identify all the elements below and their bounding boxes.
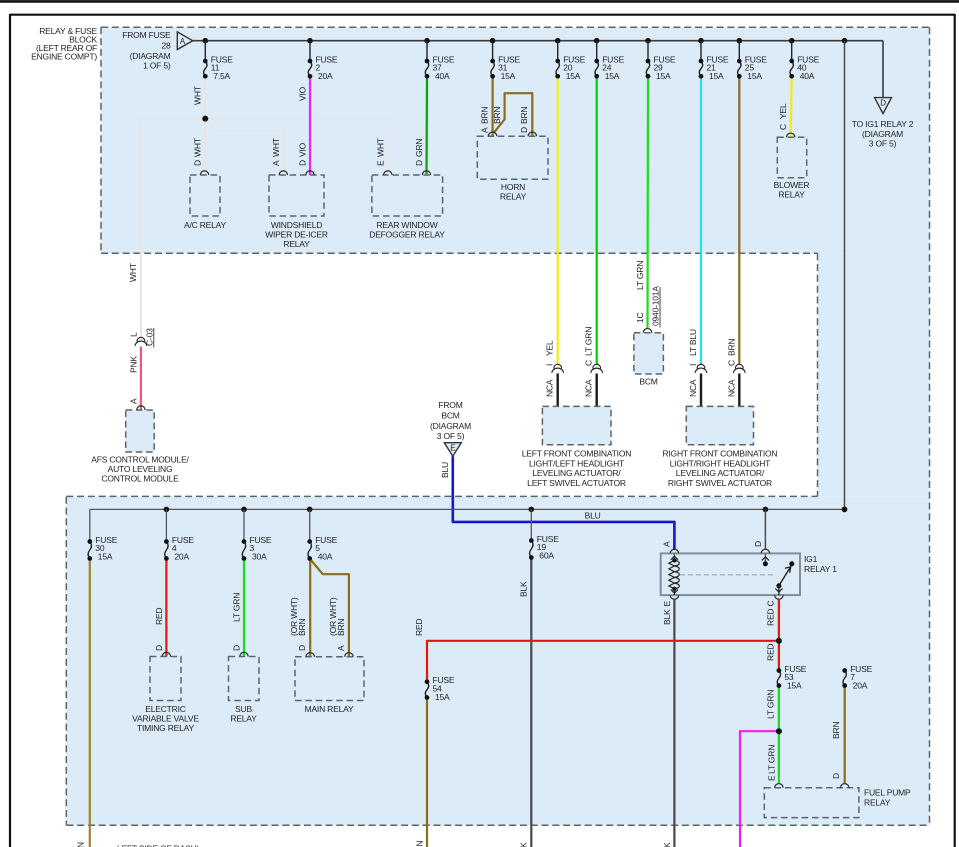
svg-text:LIGHT/RIGHT HEADLIGHT: LIGHT/RIGHT HEADLIGHT (670, 458, 771, 468)
node: bus tap for fuse 31 (490, 38, 496, 44)
svg-text:15A: 15A (98, 552, 113, 562)
wire RED: IG1 pin C down to junction and fuse 53 (778, 599, 780, 670)
svg-text:L: L (128, 332, 138, 337)
fuse 53 (777, 671, 780, 686)
dashed border: bottom box (65, 497, 67, 826)
node: bus tap for fuse 11 (203, 38, 209, 44)
node: bus tap IG1 relay pin D (763, 507, 769, 513)
svg-text:C: C (778, 124, 788, 130)
svg-text:RED: RED (766, 644, 776, 661)
relay IG1 RELAY 1 (solid box) (661, 553, 800, 595)
svg-text:A: A (180, 37, 186, 46)
svg-text:LT GRN: LT GRN (231, 593, 241, 622)
svg-text:3 OF 5): 3 OF 5) (437, 431, 465, 441)
svg-text:VIO: VIO (297, 142, 307, 157)
svg-text:LT BLU: LT BLU (688, 329, 698, 356)
svg-text:ELECTRIC: ELECTRIC (145, 704, 185, 714)
top window edge line (0, 0, 959, 3)
wire YEL: fuse 20 down to connector (557, 76, 559, 364)
fuse 4 20A (165, 542, 168, 559)
svg-text:NCA: NCA (545, 379, 555, 397)
svg-text:A: A (128, 398, 138, 404)
wire WHT: fuse 11 to junction (204, 76, 206, 118)
svg-text:REAR WINDOW: REAR WINDOW (376, 220, 437, 230)
node: bus tap fuse 3 (241, 507, 247, 513)
wire: bus to IG1 relay pin D (764, 509, 766, 550)
svg-text:LEFT SWIVEL ACTUATOR: LEFT SWIVEL ACTUATOR (527, 478, 626, 488)
wire BRN: horn loop pin A to pin D (494, 93, 533, 136)
svg-text:BRN: BRN (492, 107, 502, 124)
svg-text:15A: 15A (787, 681, 802, 691)
svg-text:RELAY 1: RELAY 1 (804, 564, 837, 574)
svg-text:VARIABLE VALVE: VARIABLE VALVE (132, 714, 199, 724)
wire LT GRN: fuse 53 to junction to fuel pump relay pin E (778, 686, 780, 784)
svg-text:WINDSHIELD: WINDSHIELD (271, 220, 322, 230)
svg-text:BLU: BLU (440, 462, 450, 478)
dashed border: right edge full (929, 27, 931, 825)
wire LT GRN: fuse 3 to SUB relay pin D (243, 559, 245, 657)
svg-text:RELAY: RELAY (778, 190, 805, 200)
node: bus tap fuse 4 (164, 507, 170, 513)
svg-text:RIGHT FRONT COMBINATION: RIGHT FRONT COMBINATION (662, 449, 777, 459)
connector: YEL to NCA (554, 364, 562, 368)
node: bus tap fuse 19 (529, 507, 535, 513)
svg-text:MAIN RELAY: MAIN RELAY (305, 704, 354, 714)
svg-text:3 OF 5): 3 OF 5) (869, 139, 897, 149)
node: RED junction (776, 638, 782, 644)
dashed border: middle box right edge (817, 253, 819, 496)
svg-text:RED: RED (766, 609, 776, 626)
svg-text:7.5A: 7.5A (213, 71, 230, 81)
wire BRN: fuse 5 branch to MAIN relay pin A (310, 559, 349, 657)
wire: bus left corner down to fuse 30 (89, 509, 91, 541)
svg-text:LEFT FRONT COMBINATION: LEFT FRONT COMBINATION (522, 449, 631, 459)
svg-text:D: D (297, 645, 307, 651)
dashed border: middle box bottom (66, 495, 817, 497)
node: bus junction with vertical feed (842, 507, 848, 513)
wire RED: fuse 4 to EVVT relay pin D (165, 559, 167, 657)
svg-text:YEL: YEL (778, 103, 788, 119)
wire: bus drop to triangle D (882, 41, 884, 98)
wire BRN: fuse 7 to fuel pump relay pin D (844, 686, 846, 784)
fuse 3 30A (242, 542, 245, 559)
svg-text:(DIAGRAM: (DIAGRAM (430, 421, 471, 431)
svg-text:DEFOGGER RELAY: DEFOGGER RELAY (369, 230, 445, 240)
IG1 relay switch arm (776, 583, 781, 588)
svg-text:RELAY: RELAY (230, 714, 257, 724)
node: LT GRN / VIO junction (776, 728, 782, 734)
fuse 5 40A (308, 542, 311, 559)
svg-text:TAN: TAN (76, 842, 86, 847)
fuse 19 60A (530, 541, 533, 558)
svg-text:BRN: BRN (479, 107, 489, 124)
fuse 24 15A (595, 61, 598, 76)
wire GRN: fuse 37 to defogger pin D (425, 76, 428, 175)
svg-text:BLU: BLU (585, 510, 601, 520)
wire VIO: junction left and down off-page (740, 731, 779, 847)
IG1 relay pin C exit (778, 586, 780, 595)
fuse 37 40A (425, 61, 428, 76)
IG1 relay: mechanical dashed link (680, 574, 776, 576)
svg-text:40A: 40A (435, 71, 450, 81)
connector triangle E (from BCM) (444, 443, 461, 457)
svg-text:20A: 20A (174, 552, 189, 562)
svg-text:20A: 20A (853, 681, 868, 691)
right blue column (818, 253, 930, 496)
svg-text:WHT: WHT (376, 138, 386, 157)
svg-text:0940-101A: 0940-101A (651, 286, 661, 326)
IG1 relay coil (673, 553, 675, 560)
svg-text:RELAY: RELAY (500, 192, 527, 202)
wire NCA lead at x=596.7 (596, 374, 598, 407)
svg-text:LT GRN: LT GRN (584, 327, 594, 356)
wire NCA lead at x=701 (700, 374, 702, 407)
svg-text:D: D (880, 98, 886, 107)
svg-text:VIO: VIO (297, 86, 307, 101)
svg-text:A/C RELAY: A/C RELAY (184, 220, 227, 230)
fuse terminal dots overlay (203, 59, 208, 64)
svg-text:BRN: BRN (414, 841, 424, 847)
wire WHT: junction down to A/C relay pin D (204, 119, 206, 175)
node: bus tap for fuse 40 (789, 38, 795, 44)
svg-text:C: C (726, 360, 736, 366)
wire VIO: fuse 2 to wiper relay pin D (309, 76, 311, 175)
svg-text:15A: 15A (435, 692, 450, 702)
svg-text:15A: 15A (501, 71, 516, 81)
relay box: SUB RELAY (229, 657, 260, 701)
wire: lower bus (90, 508, 845, 510)
svg-text:15A: 15A (709, 71, 724, 81)
relay box: ELECTRIC VARIABLE VALVE TIMING RELAY (150, 657, 181, 701)
svg-text:RELAY: RELAY (283, 239, 310, 249)
svg-text:E: E (450, 444, 455, 453)
wire NCA lead at x=557.7 (557, 374, 559, 407)
svg-text:LT GRN: LT GRN (635, 261, 645, 290)
node: WHT junction (202, 116, 208, 122)
fuse 54 (425, 682, 428, 698)
relay & fuse block region (top) (101, 27, 930, 253)
svg-text:ENGINE COMPT): ENGINE COMPT) (31, 52, 97, 62)
connector triangle D (to IG1 relay 2) (875, 98, 892, 114)
svg-text:D: D (297, 160, 307, 166)
svg-text:SUB: SUB (235, 704, 252, 714)
svg-text:TIMING RELAY: TIMING RELAY (137, 723, 194, 733)
fuse 29 15A (646, 61, 649, 76)
svg-text:I: I (545, 364, 555, 366)
svg-text:BRN: BRN (336, 619, 346, 636)
svg-text:A: A (271, 160, 281, 166)
outer frame (10, 14, 955, 16)
wire BRN: fuse 25 down to connector (738, 76, 740, 364)
svg-text:D: D (753, 541, 763, 547)
svg-text:BRN: BRN (831, 722, 841, 739)
IG1 relay pin D entry (761, 549, 769, 553)
wire LT GRN: fuse 24 down to connector (596, 76, 598, 364)
svg-text:BRN: BRN (519, 107, 529, 124)
svg-text:CONTROL MODULE: CONTROL MODULE (101, 474, 179, 484)
bottom blue region (66, 497, 929, 826)
svg-text:WHT: WHT (193, 86, 203, 105)
svg-text:LT GRN: LT GRN (766, 690, 776, 719)
svg-text:15A: 15A (747, 71, 762, 81)
svg-text:D: D (519, 127, 529, 133)
module box: AFS CONTROL MODULE (126, 410, 155, 452)
svg-text:WHT: WHT (128, 263, 138, 282)
node: bus tap for fuse 20 (555, 38, 561, 44)
svg-text:1 OF 5): 1 OF 5) (143, 61, 171, 71)
svg-text:40A: 40A (318, 552, 333, 562)
svg-text:40A: 40A (800, 71, 815, 81)
wire LT GRN: fuse 29 down to BCM connector (646, 76, 649, 329)
svg-text:E: E (767, 775, 777, 781)
fuse 2 20A (308, 61, 311, 76)
svg-text:(DIAGRAM: (DIAGRAM (130, 51, 171, 61)
svg-text:TO IG1 RELAY 2: TO IG1 RELAY 2 (852, 119, 914, 129)
relay box: FUEL PUMP RELAY (764, 788, 859, 818)
module box: LEFT FRONT COMBINATION LIGHT (542, 406, 611, 444)
relay box: REAR WINDOW DEFOGGER RELAY (372, 175, 443, 216)
svg-text:C: C (584, 360, 594, 366)
IG1 relay pin E exit (673, 589, 675, 595)
module box: BCM (634, 333, 664, 374)
wire BLK: IG1 pin E down off-page (673, 599, 675, 847)
svg-text:BLK: BLK (519, 581, 529, 597)
node: bus tap for fuse 37 (424, 38, 430, 44)
relay box: BLOWER RELAY (777, 137, 806, 177)
connector: LT BLU to NCA (697, 364, 705, 368)
svg-text:IG1: IG1 (804, 554, 818, 564)
dashed border: top box (101, 26, 930, 28)
wire RED: horizontal to fuse 54 (427, 641, 779, 682)
node: bus tap for fuse 2 (307, 38, 313, 44)
svg-text:A: A (336, 645, 346, 651)
svg-text:RED: RED (154, 608, 164, 625)
relay box: MAIN RELAY (295, 657, 364, 701)
svg-text:C: C (766, 601, 776, 607)
svg-text:RELAY: RELAY (864, 797, 891, 807)
wire PNK: C-03 to AFS module pin A (140, 347, 142, 411)
svg-text:28: 28 (161, 41, 171, 51)
node: bus tap for fuse 25 (737, 38, 743, 44)
svg-text:D: D (231, 645, 241, 651)
fuse 30 (88, 542, 91, 559)
node: bus tap for fuse 21 (698, 38, 704, 44)
wire: main bus from triangle A (193, 40, 883, 42)
svg-text:YEL: YEL (545, 340, 555, 356)
connector: LT GRN to NCA (593, 364, 601, 368)
wire NCA lead at x=739.3 (738, 374, 740, 407)
svg-text:AUTO LEVELING: AUTO LEVELING (108, 464, 173, 474)
svg-text:BCM: BCM (639, 377, 657, 387)
svg-text:WHT: WHT (193, 138, 203, 157)
svg-text:BLOWER: BLOWER (774, 180, 810, 190)
svg-text:BRN: BRN (297, 619, 307, 636)
wire BRN: fuse 5 to MAIN relay pin D (309, 559, 311, 657)
svg-text:FROM FUSE: FROM FUSE (122, 30, 171, 40)
fuse 31 15A (491, 61, 494, 76)
wire YEL: fuse 40 to blower relay pin C (791, 76, 792, 137)
wire WHT: junction left + down to C-03 (141, 119, 205, 341)
svg-text:A: A (479, 127, 489, 133)
svg-text:BLK: BLK (662, 609, 672, 625)
svg-text:E: E (376, 160, 386, 166)
svg-text:PNK: PNK (128, 356, 138, 373)
svg-text:NCA: NCA (688, 379, 698, 397)
svg-text:15A: 15A (566, 71, 581, 81)
svg-text:E: E (662, 601, 672, 607)
svg-text:15A: 15A (605, 71, 620, 81)
svg-text:60A: 60A (539, 551, 554, 561)
svg-text:15A: 15A (656, 71, 671, 81)
connector triangle A (from fuse 28) (177, 32, 192, 50)
svg-text:I: I (688, 364, 698, 366)
svg-text:C-03: C-03 (145, 328, 155, 346)
node: bus tap for fuse 29 (645, 38, 651, 44)
relay box: A/C RELAY (190, 175, 220, 216)
svg-text:BLK: BLK (519, 842, 529, 847)
svg-text:BCM: BCM (441, 411, 459, 421)
svg-text:• LEFT SIDE OF DASH): • LEFT SIDE OF DASH) (112, 844, 200, 847)
svg-text:WIPER DE-ICER: WIPER DE-ICER (265, 230, 328, 240)
wire BLK: fuse 19 down off-page (530, 558, 532, 847)
wire TAN: fuse 30 down off-page (89, 559, 91, 847)
fuse 21 15A (699, 61, 702, 76)
svg-text:A: A (661, 541, 671, 547)
connector C-03 (WHT to PNK) (137, 337, 145, 341)
svg-text:FUEL PUMP: FUEL PUMP (864, 788, 911, 798)
svg-text:30A: 30A (252, 552, 267, 562)
svg-text:LEVELING ACTUATOR/: LEVELING ACTUATOR/ (532, 468, 621, 478)
svg-text:BRN: BRN (726, 339, 736, 356)
svg-text:RED: RED (414, 619, 424, 636)
fuse 40 40A (790, 61, 793, 76)
wire BRN: fuse 31 to horn relay pin A (492, 76, 494, 136)
svg-text:AFS CONTROL MODULE/: AFS CONTROL MODULE/ (91, 455, 189, 465)
wire WHT: junction right + down to defogger pin E (205, 119, 387, 175)
svg-text:(DIAGRAM: (DIAGRAM (862, 129, 903, 139)
fuse 11 7.5A (204, 61, 207, 76)
svg-text:D: D (414, 160, 424, 166)
svg-text:LIGHT/LEFT HEADLIGHT: LIGHT/LEFT HEADLIGHT (529, 458, 624, 468)
wire: vertical feed from top bus down to lower bus (844, 41, 846, 510)
svg-text:NCA: NCA (584, 379, 594, 397)
svg-text:HORN: HORN (501, 182, 525, 192)
fuse 25 15A (738, 61, 741, 76)
relay box: HORN RELAY (477, 136, 548, 179)
svg-text:D: D (831, 773, 841, 779)
wire BLU: triangle E down, right, to IG1 relay pin A (453, 456, 675, 550)
svg-text:D: D (193, 160, 203, 166)
svg-text:WHT: WHT (271, 138, 281, 157)
node: bus tap for fuse 24 (594, 38, 600, 44)
svg-text:LT GRN: LT GRN (767, 745, 777, 774)
relay box: WINDSHIELD WIPER DE-ICER RELAY (269, 175, 324, 216)
svg-text:20A: 20A (318, 71, 333, 81)
node: bus tap fuse 5 (307, 507, 313, 513)
svg-text:NCA: NCA (726, 379, 736, 397)
svg-text:BLK: BLK (662, 842, 672, 847)
wire WHT: junction diagonal to wiper relay pin A (205, 119, 283, 175)
connector: BRN to NCA (735, 364, 743, 368)
fuse 7 (842, 507, 848, 513)
svg-text:D: D (154, 645, 164, 651)
fuse 20 15A (556, 61, 559, 76)
wire BRN: fuse 54 down off-page (426, 698, 428, 847)
module box: RIGHT FRONT COMBINATION LIGHT (686, 406, 753, 444)
svg-text:1C: 1C (635, 312, 645, 323)
svg-text:GRN: GRN (414, 139, 424, 157)
svg-text:RIGHT SWIVEL ACTUATOR: RIGHT SWIVEL ACTUATOR (668, 478, 772, 488)
svg-text:LEVELING ACTUATOR/: LEVELING ACTUATOR/ (676, 468, 765, 478)
wire LT BLU: fuse 21 down to connector (700, 76, 702, 364)
node: bus tap for feed to lower block (842, 38, 848, 44)
svg-text:FROM: FROM (438, 400, 462, 410)
